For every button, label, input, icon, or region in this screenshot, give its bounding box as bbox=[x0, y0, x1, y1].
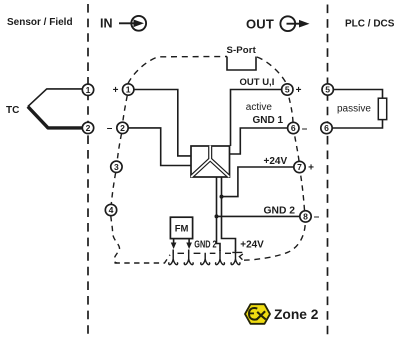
FM arrow right bbox=[188, 239, 190, 244]
svg-text:TC: TC bbox=[6, 105, 19, 116]
svg-text:–: – bbox=[314, 212, 320, 223]
svg-text:OUT U,I: OUT U,I bbox=[240, 77, 275, 88]
svg-text:+24V: +24V bbox=[264, 156, 288, 167]
device dashed outline: hook right of plug 5 bbox=[239, 254, 243, 260]
plug contact 4 (GND 2) bbox=[216, 250, 225, 265]
svg-text:5: 5 bbox=[325, 85, 330, 95]
device dashed outline: S-Port to terminal 5 bbox=[257, 57, 286, 83]
svg-text:5: 5 bbox=[285, 85, 290, 95]
svg-text:GND 2: GND 2 bbox=[264, 206, 296, 217]
terminal 6 PLC bbox=[321, 122, 332, 133]
svg-text:FM: FM bbox=[175, 224, 189, 235]
device dashed outline: left column t2-t3 bbox=[117, 134, 121, 161]
resistor (passive load) bbox=[378, 98, 386, 119]
wire isolator to terminal 5 (OUT U,I) bbox=[231, 90, 283, 147]
terminal 8 OUT bbox=[300, 211, 311, 222]
Ex hexagon mark bbox=[245, 304, 270, 324]
zone boundary dashed line right (OUT | PLC/DCS) bbox=[327, 5, 329, 337]
svg-text:2: 2 bbox=[120, 123, 125, 133]
junction +24V bbox=[220, 195, 224, 199]
isolator barrier Y (double lines) bbox=[191, 146, 229, 177]
terminal 6 OUT bbox=[288, 122, 299, 133]
svg-text:GND 2: GND 2 bbox=[194, 239, 217, 250]
wire terminal2 to isolator bbox=[128, 128, 191, 166]
TC wire - (thick) bbox=[28, 107, 83, 128]
terminal 7 OUT bbox=[294, 161, 305, 172]
zone boundary dashed line left (Sensor/Field | IN) bbox=[87, 4, 89, 336]
terminal 2 field bbox=[82, 122, 93, 133]
terminal 1 IN bbox=[123, 84, 134, 95]
FM box bbox=[170, 217, 192, 238]
device dashed outline: t4 down to bottom-left corner bbox=[111, 216, 120, 263]
svg-text:+: + bbox=[113, 85, 119, 96]
junction GND2 bbox=[215, 214, 219, 218]
TC wire + (thin) bbox=[28, 89, 83, 107]
svg-text:IN: IN bbox=[100, 17, 113, 31]
svg-text:S-Port: S-Port bbox=[227, 45, 257, 56]
svg-text:+24V: +24V bbox=[240, 239, 264, 250]
wire +24V branch to terminal 7 bbox=[222, 167, 294, 197]
svg-text:4: 4 bbox=[109, 205, 114, 215]
svg-text:OUT: OUT bbox=[246, 17, 274, 32]
plug contact 3 (spare) bbox=[201, 253, 210, 265]
svg-text:6: 6 bbox=[324, 123, 329, 133]
S-Port box (open top) bbox=[227, 57, 256, 71]
svg-text:6: 6 bbox=[291, 123, 296, 133]
svg-text:active: active bbox=[246, 102, 273, 113]
svg-text:–: – bbox=[107, 123, 113, 134]
wire isolator to terminal 6 (GND 1) bbox=[230, 128, 288, 154]
device dashed outline: left column t1-t2 bbox=[123, 96, 127, 122]
terminal 5 OUT bbox=[282, 84, 293, 95]
svg-text:7: 7 bbox=[297, 162, 302, 172]
plug contact 5 (+24V) bbox=[231, 250, 240, 265]
device dashed outline: bottom row between plugs bbox=[178, 251, 243, 254]
wire isolator supply right leg (+24V net) bbox=[222, 177, 236, 251]
svg-text:Zone 2: Zone 2 bbox=[274, 307, 319, 322]
svg-text:+: + bbox=[308, 162, 314, 173]
svg-text:+: + bbox=[296, 85, 302, 96]
device dashed outline: bottom edge left of plug 1 bbox=[115, 255, 171, 263]
svg-text:Sensor / Field: Sensor / Field bbox=[7, 17, 73, 28]
wire isolator supply left leg (GND2 net) bbox=[217, 177, 221, 251]
device dashed outline: right column t8-t7 bbox=[300, 173, 304, 211]
plug contact 2 (FM) bbox=[184, 250, 193, 265]
plug contact 1 (FM) bbox=[169, 250, 178, 265]
terminal 4 IN bbox=[105, 204, 116, 215]
device dashed outline: arc plug5 to terminal 8 bbox=[244, 222, 305, 260]
wire terminal1 to isolator bbox=[134, 90, 191, 156]
svg-text:1: 1 bbox=[126, 85, 131, 95]
device dashed outline: top-left corner to S-Port bbox=[128, 57, 227, 84]
device dashed outline: right column t6-t5 bbox=[289, 96, 294, 123]
svg-text:passive: passive bbox=[337, 104, 371, 115]
wire resistor to PLC terminal6 bbox=[332, 120, 382, 128]
terminal 1 field bbox=[82, 84, 93, 95]
wire PLC terminal5 to resistor bbox=[333, 90, 382, 99]
svg-text:8: 8 bbox=[303, 211, 308, 221]
terminal 3 IN bbox=[111, 161, 122, 172]
svg-text:–: – bbox=[302, 123, 308, 134]
FM arrow left bbox=[173, 239, 175, 244]
terminal 5 PLC bbox=[322, 84, 333, 95]
device dashed outline: right column t7-t6 bbox=[295, 134, 300, 161]
svg-text:3: 3 bbox=[114, 162, 119, 172]
svg-text:1: 1 bbox=[86, 85, 91, 95]
svg-text:PLC / DCS: PLC / DCS bbox=[345, 19, 395, 30]
terminal 2 IN bbox=[117, 122, 128, 133]
svg-text:GND 1: GND 1 bbox=[253, 115, 284, 126]
wire GND2 branch to terminal 8 bbox=[217, 215, 300, 217]
svg-text:2: 2 bbox=[86, 123, 91, 133]
isolator U1 box bbox=[191, 146, 230, 177]
device dashed outline: left column t3-t4 bbox=[111, 173, 115, 204]
